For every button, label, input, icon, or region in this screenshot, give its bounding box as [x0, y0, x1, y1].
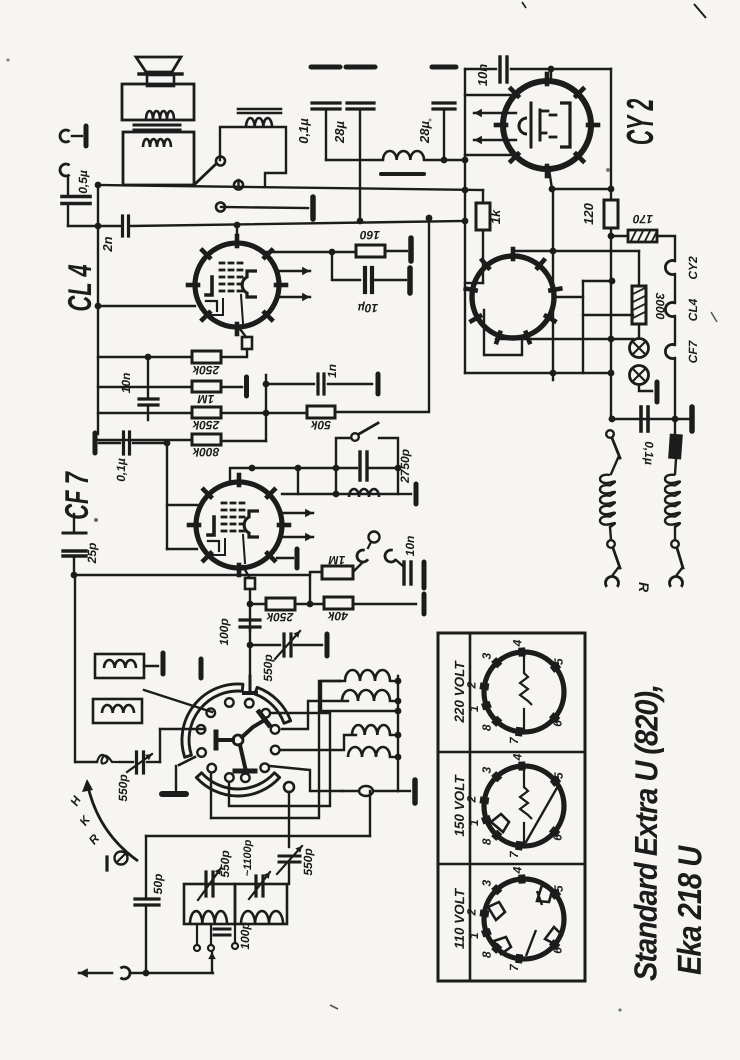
svg-text:2n: 2n — [100, 236, 115, 252]
grid hook 1 — [355, 549, 368, 564]
tuning gang box 2 — [235, 884, 287, 924]
mains switch lever L — [612, 438, 620, 458]
band switch stator upper right band — [255, 687, 291, 723]
wire heater 3 — [674, 358, 676, 419]
svg-text:1: 1 — [467, 932, 481, 939]
arrow CF7 out 2 — [281, 536, 313, 538]
terminal bar tone — [414, 484, 419, 504]
terminal bar IF — [412, 780, 418, 803]
tube CY2 envelope — [503, 81, 591, 169]
input coil box 2 — [93, 699, 142, 723]
wire y339 — [496, 338, 633, 340]
wire 10µ to terminal — [375, 279, 406, 281]
switch S1 contact a — [216, 157, 225, 166]
svg-text:0,5µ: 0,5µ — [76, 170, 90, 194]
band switch lower band end contact — [284, 782, 294, 792]
wire to osc coil — [270, 766, 342, 791]
wire trimmer to box2 — [288, 862, 290, 884]
switch S1 contact c — [216, 203, 225, 212]
mains plug hook L — [612, 568, 618, 576]
wire x553 down — [552, 190, 554, 380]
svg-text:550p: 550p — [261, 654, 275, 681]
capacitor 550p trimmer (osc) — [250, 644, 280, 646]
svg-text:10µ: 10µ — [358, 301, 378, 315]
scan speckle marks — [694, 4, 706, 18]
aerial terminal bar — [84, 126, 89, 146]
svg-text:2: 2 — [464, 681, 478, 689]
svg-text:CF7: CF7 — [686, 339, 700, 363]
band switch rotor arm S — [240, 745, 245, 767]
svg-text:550p: 550p — [301, 848, 315, 875]
svg-text:220 VOLT: 220 VOLT — [452, 660, 467, 724]
wire bus y226 right — [131, 221, 465, 226]
svg-text:5: 5 — [552, 885, 566, 892]
wire hook down — [67, 176, 69, 195]
tone coil L2 — [349, 489, 379, 497]
tuning cap 550p — [204, 872, 207, 896]
wire y315 — [583, 314, 633, 316]
tube CF7 internals — [208, 517, 214, 535]
capacitor 10n (AF) — [139, 397, 158, 400]
wire bus y226 left — [68, 225, 120, 227]
svg-text:8: 8 — [480, 724, 494, 731]
mains plug hook R — [676, 568, 682, 576]
wire switch to coil1 — [211, 681, 340, 818]
tube CF7 envelope — [196, 482, 282, 568]
wire y281 — [583, 280, 612, 282]
resistor 120 — [604, 200, 618, 228]
tuning gang box 1 — [184, 884, 235, 924]
socket 150 link — [526, 786, 558, 842]
terminal bar 10µ — [407, 268, 413, 293]
wire 1n right — [328, 383, 372, 385]
wire coil box to switch — [144, 690, 212, 712]
capacitor 0,1µ (IF) — [122, 432, 125, 454]
capacitor 50p — [135, 897, 159, 900]
wire CY2 right — [610, 69, 612, 199]
mains lever R2 — [677, 548, 683, 568]
resistor 1M (osc) — [322, 566, 353, 579]
svg-text:3: 3 — [480, 879, 494, 886]
wire 250k(2) to 50k bus — [221, 412, 307, 414]
wire switch to coil2 — [282, 701, 348, 729]
capacitor 550p trimmer (input) — [135, 752, 138, 773]
terminal bar B+ — [408, 238, 414, 261]
wire CY2 bottom — [549, 169, 552, 189]
wire CF7 anode right — [277, 557, 293, 559]
wire aerial to bar — [72, 135, 82, 137]
terminal bar 40k — [422, 594, 427, 614]
resistor 1M — [192, 381, 221, 392]
wire vertical x430 — [428, 218, 430, 412]
band switch contacts ring — [225, 698, 234, 707]
wire 1M osc — [310, 572, 322, 604]
resistor 40k — [324, 597, 353, 609]
terminal bar CF7 anode — [295, 549, 300, 568]
wire V2 top — [512, 251, 514, 256]
wire 3000 top — [638, 251, 640, 286]
terminal bar 1M — [244, 377, 249, 396]
pilot lamp 1 — [630, 339, 649, 358]
svg-text:1M: 1M — [197, 392, 215, 406]
aerial terminal hook — [60, 130, 70, 142]
socket 220 resistor — [523, 655, 525, 673]
arrow CL4 out 1 — [277, 270, 310, 272]
svg-text:6: 6 — [551, 834, 565, 841]
panel divider h1 — [438, 751, 585, 754]
resistor 250k (AF grid) — [192, 351, 221, 363]
wire 50k right — [335, 411, 427, 413]
panel divider h2 — [438, 863, 585, 866]
svg-text:550p: 550p — [218, 850, 232, 877]
wire CL4 grid left — [98, 305, 195, 307]
wire coil1 to bar — [144, 665, 158, 667]
svg-text:250k: 250k — [191, 363, 220, 377]
band switch top prong — [249, 646, 251, 676]
switch S1 contact b — [234, 181, 243, 190]
arrow CL4 out 2 — [277, 296, 310, 298]
switch S1 lever — [195, 164, 216, 184]
wire CY2 top — [550, 69, 552, 81]
wire 1n left — [266, 383, 314, 385]
svg-text:10n: 10n — [119, 373, 133, 394]
wire 10n left — [465, 68, 496, 70]
wire arc contact to trimmer — [288, 792, 290, 847]
capacitor 28µ a — [346, 65, 375, 70]
tone switch lever — [359, 423, 378, 434]
svg-text:Eka 218 U: Eka 218 U — [672, 845, 709, 975]
svg-text:1n: 1n — [325, 364, 339, 378]
output transformer T1 primary winding — [146, 111, 174, 119]
wire 50p stem — [145, 836, 147, 898]
wire CY2 left lower — [465, 154, 512, 156]
capacitor 1n — [316, 374, 319, 394]
wire vertical x167 — [166, 443, 168, 549]
svg-text:4: 4 — [510, 639, 524, 647]
wire V2 bottom bus — [465, 372, 611, 374]
svg-text:1k: 1k — [488, 209, 503, 224]
wire choke to CY2 vertical — [464, 69, 466, 373]
band switch rotor arm NE — [242, 721, 263, 737]
wire 250k-40k — [295, 603, 324, 605]
mains dropper coil L — [611, 458, 618, 474]
svg-text:150 VOLT: 150 VOLT — [452, 774, 467, 837]
svg-text:250k: 250k — [265, 610, 294, 624]
svg-text:170: 170 — [633, 212, 653, 226]
svg-text:2: 2 — [464, 908, 478, 916]
wire 1M to hook — [353, 563, 362, 572]
tube CL4 grid cap — [240, 329, 246, 337]
band switch stator lower band — [196, 773, 279, 796]
svg-text:6: 6 — [551, 947, 565, 954]
top cap symbol Q — [369, 532, 380, 543]
capacitor 10µ electrolytic — [363, 268, 367, 292]
wire 170 to heater chain — [657, 236, 675, 261]
svg-text:10n: 10n — [475, 64, 490, 87]
socket 150 resistor — [523, 769, 525, 787]
wire 100p down — [249, 627, 251, 646]
wire V2 inner loop — [484, 310, 522, 355]
arrow heater 1 — [474, 112, 516, 114]
wire 550p right — [294, 644, 322, 646]
wire bus y185 — [98, 185, 483, 190]
band switch rotor hub — [233, 735, 243, 745]
tube CY2 internals — [530, 103, 533, 147]
wire 0,1µ — [99, 442, 120, 444]
heater chain bump CF7 — [665, 345, 675, 359]
wire hook2 to 10n — [396, 560, 403, 566]
terminal bar 550p — [325, 634, 330, 656]
svg-text:25p: 25p — [85, 543, 99, 565]
capacitor 2n — [121, 216, 124, 236]
svg-text:28µ: 28µ — [332, 120, 347, 144]
svg-text:CF 7: CF 7 — [58, 470, 96, 520]
wire 250k to grid cap — [221, 349, 247, 357]
antenna arrow — [79, 972, 112, 975]
wire left vertical to coils — [74, 575, 76, 762]
IF coil 3 — [352, 725, 390, 735]
arrow heater 2 — [474, 139, 516, 141]
wire bottom bus — [146, 972, 213, 974]
wire tone coil to bus — [237, 180, 239, 185]
voltage selector panel frame — [438, 633, 585, 981]
terminal bar 0,1µ left — [93, 433, 98, 453]
wire 28µb stem — [443, 109, 445, 160]
wire 800k right — [221, 440, 266, 442]
svg-text:3000: 3000 — [653, 293, 667, 320]
wire aerial coil bottom — [76, 761, 97, 763]
mains dropper coil R — [675, 459, 676, 474]
panel divider vertical — [469, 633, 472, 981]
tuning coil 1 — [190, 911, 227, 924]
svg-text:3: 3 — [480, 766, 494, 773]
wire antenna bus — [146, 835, 370, 837]
tone coil L1 box — [220, 127, 286, 185]
tube CL4 envelope — [195, 243, 279, 327]
wire mains bus — [610, 418, 689, 420]
wire cap to bus — [67, 204, 69, 226]
input coil box 1 — [95, 654, 144, 678]
resistor 250k (2) — [192, 407, 221, 418]
wire CF7 top loop — [230, 468, 336, 483]
earth terminal hook — [60, 164, 70, 176]
resistor 1k — [482, 190, 484, 203]
svg-text:50p: 50p — [151, 874, 165, 895]
wire y297 — [555, 296, 583, 298]
svg-text:1M: 1M — [328, 553, 346, 567]
wire lamps ground — [639, 385, 652, 391]
tube CF7 grid cap — [243, 566, 249, 577]
wire heater 1 — [674, 274, 676, 303]
wire V2 left pin stub — [465, 282, 477, 284]
grid hook 2 — [383, 549, 396, 564]
wire grid cap down — [249, 589, 251, 631]
transformer core — [134, 124, 180, 127]
wire lever down — [175, 766, 177, 792]
IF transformer box — [321, 681, 398, 711]
dial arc indicator — [87, 782, 138, 861]
wire switch to coil3 — [281, 735, 356, 750]
socket 220 VOLT — [484, 652, 564, 732]
tone coil core — [238, 112, 281, 115]
capacitor 0,1µ (mains) — [311, 65, 340, 70]
svg-text:28µ: 28µ — [417, 120, 432, 144]
svg-text:110 VOLT: 110 VOLT — [452, 887, 467, 949]
svg-text:~1100p: ~1100p — [242, 839, 254, 876]
capacitor 2750p — [336, 467, 357, 469]
capacitor 28µ b — [432, 65, 456, 70]
IF coil 4 — [348, 747, 390, 757]
coil taps — [196, 924, 198, 945]
svg-text:R: R — [636, 582, 652, 593]
socket 110 VOLT — [484, 879, 564, 959]
wire 1k down — [482, 230, 484, 283]
wire CL4 anode out — [236, 225, 238, 243]
resistor 50k — [307, 406, 335, 418]
wire to terminal — [398, 790, 410, 792]
IF coil 1 — [345, 670, 390, 681]
resistor 250k (osc) — [266, 598, 295, 610]
terminal bar coil1b — [199, 659, 204, 678]
mains fuse contact R — [674, 527, 676, 540]
wire left to switch — [160, 728, 204, 730]
svg-text:120: 120 — [581, 202, 596, 225]
svg-text:160: 160 — [360, 228, 380, 242]
svg-text:0,1µ: 0,1µ — [642, 441, 656, 465]
node bus left — [95, 182, 102, 189]
wire CL4 screen to resistor 160 — [267, 251, 356, 253]
band switch stator upper band — [182, 684, 243, 757]
wire 25p to bus — [73, 557, 75, 575]
wire 1M right — [221, 386, 242, 388]
svg-text:5: 5 — [552, 772, 566, 779]
band switch rotor arm W — [218, 738, 233, 742]
capacitor 10n (mains) — [498, 57, 501, 82]
ballast resistor solid — [668, 434, 683, 460]
resistor 800k — [192, 434, 221, 445]
output transformer T1 primary box — [122, 84, 194, 120]
tone coil L1 winding — [246, 118, 272, 127]
wire 28µa stem — [359, 109, 361, 221]
svg-text:4: 4 — [510, 866, 524, 874]
svg-text:CL4: CL4 — [686, 298, 700, 321]
wire x583 — [582, 281, 584, 373]
filter choke — [326, 159, 383, 161]
mains fuse contact L — [610, 527, 611, 540]
wire bus y207 — [221, 207, 308, 208]
wire y251 — [513, 250, 639, 252]
ground bar mains — [689, 407, 695, 431]
terminal bar coil1 — [161, 653, 166, 674]
capacitor 0,5µ — [62, 195, 90, 199]
mains lever L2 — [613, 548, 620, 568]
socket 150 VOLT — [484, 766, 564, 846]
svg-text:0,1µ: 0,1µ — [114, 458, 128, 482]
svg-text:50k: 50k — [310, 418, 331, 432]
svg-text:6: 6 — [551, 720, 565, 727]
wire to capacitor 10µ — [332, 252, 360, 280]
wire up to switch — [159, 729, 161, 762]
svg-text:Standard Extra U (820),: Standard Extra U (820), — [629, 685, 665, 981]
tube V2 envelope — [472, 256, 554, 338]
oscillator coupling coil — [359, 786, 373, 796]
capacitor 25p trimmer — [73, 514, 75, 531]
svg-text:8: 8 — [480, 951, 494, 958]
svg-text:250k: 250k — [191, 418, 220, 432]
wire 3000 bottom — [638, 324, 640, 338]
svg-text:3: 3 — [480, 652, 494, 659]
svg-text:4: 4 — [510, 753, 524, 761]
tone circuit loop — [336, 438, 350, 494]
svg-text:CL 4: CL 4 — [61, 264, 99, 311]
wire bus y575 — [74, 574, 310, 576]
svg-text:8: 8 — [480, 838, 494, 845]
dial knob symbol — [105, 857, 108, 870]
tube CL4 internals — [206, 277, 212, 295]
wire 170 left — [611, 235, 628, 237]
capacitor 100p — [240, 618, 260, 621]
capacitor 550p trimmer (osc2) — [279, 855, 300, 858]
heater chain bump CL4 — [665, 303, 675, 317]
svg-text:550p: 550p — [116, 774, 130, 801]
ground bar lamps — [655, 382, 660, 402]
tone switch contact — [351, 433, 359, 441]
terminal bar 1n — [376, 374, 381, 394]
wire CF7 left pins — [167, 504, 197, 506]
capacitor 10n (osc) — [402, 562, 405, 584]
svg-text:100p: 100p — [217, 618, 231, 645]
wire heater 2 — [674, 316, 676, 345]
IF coil 2 — [342, 690, 390, 701]
svg-text:800k: 800k — [191, 445, 219, 459]
svg-text:0,1µ: 0,1µ — [296, 118, 311, 144]
capacitor 100p (padder) — [214, 928, 230, 931]
wire top bus — [511, 68, 611, 70]
output transformer T1 secondary box — [123, 132, 194, 185]
arrow wiper — [211, 952, 213, 973]
output transformer T1 secondary winding — [143, 139, 171, 147]
pilot lamp 2 — [630, 366, 649, 385]
wire x266 vertical — [265, 375, 267, 441]
svg-text:2750p: 2750p — [398, 449, 412, 484]
tuning cap 1100p — [254, 876, 257, 896]
svg-text:5: 5 — [552, 658, 566, 665]
tuning coil 2 — [241, 911, 283, 924]
resistor 160 — [356, 245, 385, 257]
heater chain bump CY2 — [665, 261, 675, 275]
terminal bar 10n osc — [422, 562, 427, 588]
svg-text:10n: 10n — [403, 536, 417, 557]
arrow CF7 out 1 — [281, 512, 313, 514]
wire CY2 left top — [465, 94, 512, 96]
wire 120 down — [610, 228, 612, 419]
svg-text:1: 1 — [467, 819, 481, 826]
svg-text:CY2: CY2 — [686, 256, 700, 280]
socket 110 links — [488, 902, 505, 920]
wire IF bus right — [397, 676, 399, 791]
wire 160 to terminal — [385, 250, 407, 252]
wire left vertical x98 — [97, 185, 99, 434]
svg-text:CY 2: CY 2 — [620, 98, 662, 145]
wire nested loop 1 — [229, 713, 330, 806]
svg-text:100p: 100p — [238, 922, 252, 949]
wire 40k right — [353, 603, 416, 605]
ground bar switch — [162, 791, 186, 797]
wire tone to terminal — [398, 493, 411, 495]
svg-text:1: 1 — [467, 705, 481, 712]
resistor 170 hatched — [628, 230, 657, 242]
wire 10n stem — [147, 357, 149, 398]
